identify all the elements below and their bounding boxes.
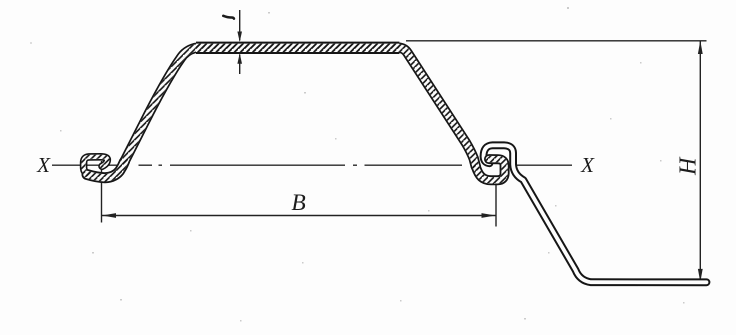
dimension B horizontal line [102,215,497,217]
web left + top flange + web right (black) [125,48,476,167]
node dot [159,164,163,166]
svg-text:B: B [291,190,305,216]
arrowhead t up [237,53,242,64]
extension line B left (through left interlock) [101,161,103,223]
arrowhead B right [482,213,496,218]
arrowhead t down [237,32,242,43]
svg-text:H: H [675,156,701,176]
extension line B right (below right interlock) [495,183,497,227]
arrowhead H up [698,41,703,54]
wire: centerline right segment [514,164,572,166]
interiors (white) [125,48,476,167]
svg-text:X: X [580,153,595,177]
arrowhead B left [102,213,116,218]
dimension t vertical line lower [239,55,241,75]
wire: centerline left segment [52,164,127,166]
left hook (black) [84,157,108,174]
wire: centerline dash to right interlock [365,164,463,166]
wire: centerline dash after left interlock [139,164,153,166]
extension line top (flange to H line) [406,40,707,42]
node dot [353,164,357,166]
main sheet pile hatched section [84,48,505,181]
label t [223,16,234,19]
hatch fills [125,48,476,167]
svg-text:X: X [36,153,51,177]
centerline X-X (dash-dot) [52,164,572,166]
dimension H vertical line [699,41,701,282]
arrowhead H down [698,269,703,282]
dimension t vertical line upper [239,10,241,74]
top flange thick (black) [196,42,399,54]
right hook (black) [476,159,505,180]
adjacent sheet pile outline (unhatched band): interlock hook, web, bottom flange [484,145,707,282]
wire: centerline long dash [170,164,345,166]
